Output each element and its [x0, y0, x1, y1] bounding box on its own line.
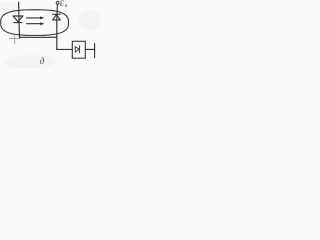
- annotation plus mark: [9, 36, 20, 44]
- svg-text:п: п: [65, 3, 68, 9]
- photodiode: [53, 14, 61, 20]
- optocoupler body: [1, 10, 69, 36]
- amplifier symbol: [75, 46, 79, 53]
- amplifier box: [72, 41, 85, 58]
- wire: LED anode lead through diode to bottom wire: [18, 2, 21, 37]
- output terminal bar: [94, 43, 96, 57]
- LED emitter diode: [13, 16, 23, 23]
- light arrow 1: [27, 16, 45, 19]
- scan shading: [0, 2, 102, 69]
- supply terminal: [56, 2, 59, 5]
- wire: amplifier input: [57, 48, 73, 50]
- light arrow 2: [27, 22, 45, 25]
- wire: bottom wire LED cathode to junction: [19, 36, 56, 38]
- wire: photodiode lead from supply terminal through diode down to junction: [56, 4, 59, 49]
- wire: amplifier output: [85, 48, 94, 50]
